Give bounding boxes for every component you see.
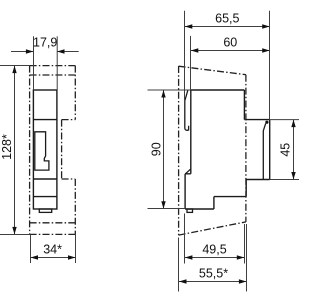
phantom cover top inner edge xyxy=(30,74,76,76)
dim 55,5* extension right xyxy=(246,224,248,292)
bottom face xyxy=(185,208,214,210)
right face xyxy=(269,120,271,180)
dim 60 arrow left xyxy=(191,48,199,52)
svg-text:55,5*: 55,5* xyxy=(199,266,228,280)
dim 60 arrow right xyxy=(262,48,270,52)
lower-left face xyxy=(184,174,186,209)
upper-right face xyxy=(243,90,245,120)
dim 55,5* arrow right xyxy=(239,279,247,283)
phantom cover bottom inner edge xyxy=(30,222,76,224)
svg-text:49,5: 49,5 xyxy=(202,242,226,256)
dim 49,5 arrow right xyxy=(237,255,245,259)
svg-text:90: 90 xyxy=(150,142,164,156)
dim 90 dimension line xyxy=(163,90,165,209)
phantom cover top slant xyxy=(179,66,246,75)
upper shoulder xyxy=(244,119,269,121)
phantom cover bottom slant xyxy=(179,222,246,235)
dim 65,5 arrow right xyxy=(262,24,270,28)
dim 128* arrow up xyxy=(12,66,16,74)
dim 17,9 extension lines xyxy=(33,36,35,90)
dim 55,5* extension left xyxy=(178,238,180,292)
svg-text:34*: 34* xyxy=(43,242,62,256)
dim 65,5 arrow left xyxy=(185,24,193,28)
dim 45 extension top xyxy=(270,119,299,121)
face line y=179 xyxy=(33,178,57,180)
face line y=119.6 xyxy=(33,119,57,121)
svg-text:17,9: 17,9 xyxy=(33,36,57,50)
phantom notch bottom edge xyxy=(62,178,76,180)
phantom cover bottom edge xyxy=(30,233,76,235)
dim 90 extension bottom xyxy=(148,208,186,210)
bottom step horizontal xyxy=(214,196,246,198)
dim 34* arrow left xyxy=(31,255,39,259)
dim 128* extension bottom xyxy=(0,234,30,236)
lower claw wedge xyxy=(185,169,191,174)
dim 65,5 dimension line xyxy=(185,26,270,28)
bottom slide tab side xyxy=(187,209,193,212)
dim 49,5 dimension line xyxy=(185,257,244,259)
svg-text:128*: 128* xyxy=(0,134,14,160)
toggle recess cutout xyxy=(35,132,49,170)
bottom slide tab front xyxy=(39,209,51,212)
dim 128* arrow down xyxy=(12,227,16,235)
phantom cover right edge upper xyxy=(74,66,76,120)
phantom cover left edge xyxy=(29,66,31,235)
face line y=196.6 xyxy=(33,196,57,198)
top face xyxy=(191,89,245,91)
dim 17,9 dimension line xyxy=(11,51,33,53)
dim 45 dimension line xyxy=(293,120,295,180)
dim 17,9 arrow right xyxy=(57,49,65,53)
phantom cover notch edge xyxy=(61,120,63,179)
dim 90 arrow up xyxy=(161,90,165,98)
lower-right face xyxy=(245,180,247,197)
terminal clamp line xyxy=(263,123,265,179)
dim 90 extension top xyxy=(148,89,191,91)
dim 49,5 extension right xyxy=(244,224,246,264)
svg-text:45: 45 xyxy=(279,143,293,157)
phantom cover right edge side xyxy=(245,75,247,222)
phantom cover right edge lower xyxy=(74,179,76,234)
dim 128* dimension line xyxy=(14,66,16,235)
bottom step vertical xyxy=(213,197,215,209)
terminal screw dot xyxy=(265,121,268,124)
dim 34* arrow right xyxy=(68,255,76,259)
svg-text:65,5: 65,5 xyxy=(215,11,239,25)
phantom cover left edge side xyxy=(178,66,180,235)
dim 45 arrow up xyxy=(291,120,295,128)
DIN clip spring leaf xyxy=(185,90,189,130)
dim 90 arrow down xyxy=(161,201,165,209)
svg-text:60: 60 xyxy=(223,36,237,50)
dim 55,5* arrow left xyxy=(179,279,187,283)
dim 49,5 extension left xyxy=(184,214,186,264)
dim 65,5 extension right xyxy=(269,11,271,120)
dim 55,5* dimension line xyxy=(179,281,246,283)
dim 17,9 arrow left xyxy=(26,49,34,53)
back face xyxy=(190,90,192,174)
lower shoulder xyxy=(246,179,270,181)
dim 60 dimension line xyxy=(191,50,270,52)
dim 34* dimension line xyxy=(31,257,76,259)
dim 45 extension bottom xyxy=(270,179,299,181)
dim 45 arrow down xyxy=(291,172,295,180)
dim 49,5 arrow left xyxy=(185,255,193,259)
dim 34* extension lines xyxy=(30,234,32,263)
device outline front xyxy=(33,90,57,209)
dim 65,5 extension left xyxy=(184,11,186,100)
phantom notch top edge xyxy=(62,119,76,121)
dim 128* extension top xyxy=(0,65,30,67)
phantom cover top edge xyxy=(30,65,76,67)
dim 60 extension left xyxy=(190,36,192,90)
